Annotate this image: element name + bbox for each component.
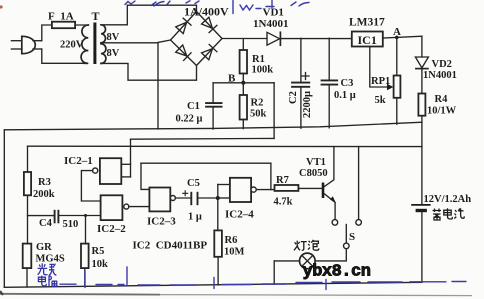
- svg-text:IC1: IC1: [358, 33, 377, 47]
- transformer secondary winding 8V top: [101, 25, 106, 43]
- battery 12V/1.2Ah: [411, 205, 430, 282]
- left edge of oscillator box: [3, 130, 5, 287]
- svg-text:220V: 220V: [60, 40, 84, 51]
- wire bridge left vertex to center tap junction: [158, 40, 171, 42]
- wire IC2-1 output to IC2-2 input: [81, 171, 100, 201]
- svg-text:50k: 50k: [250, 109, 267, 120]
- switch S right contact: [356, 220, 362, 226]
- wire IC2-3 output to C5: [175, 197, 191, 199]
- transformer T primary winding 220V: [81, 25, 88, 63]
- svg-text:VD1: VD1: [263, 7, 284, 19]
- svg-text:R3: R3: [38, 177, 51, 188]
- potentiometer RP1: [370, 37, 401, 124]
- switch S right contact wire: [358, 147, 360, 220]
- svg-text:VT1: VT1: [306, 157, 326, 168]
- svg-text:1A/400V: 1A/400V: [184, 5, 229, 19]
- label dianzu blue chinese: [38, 276, 57, 287]
- svg-text:200k: 200k: [33, 189, 55, 200]
- transformer core: [93, 23, 96, 65]
- svg-text:VD2: VD2: [432, 59, 452, 70]
- blue pen annotation top 2: [151, 1, 170, 6]
- resistor R6: [214, 198, 222, 285]
- resistor R4: [418, 94, 425, 205]
- svg-text:10k: 10k: [92, 259, 109, 270]
- svg-text:0.1 μ: 0.1 μ: [334, 90, 356, 101]
- wire IC1 output to node A and corner: [383, 36, 422, 38]
- blue pen annotation top 1: [125, 1, 135, 5]
- wire feedback to IC2-3 input: [141, 163, 149, 189]
- node B: [213, 81, 274, 85]
- svg-text:F 1A: F 1A: [48, 11, 74, 23]
- bridge rectifier diamond: [171, 12, 223, 66]
- capacitor C2 electrolytic: [291, 38, 310, 128]
- svg-text:12V/1.2Ah: 12V/1.2Ah: [424, 194, 472, 205]
- photoresistor GR MG4S: [23, 244, 32, 287]
- wire plug to fuse: [42, 25, 52, 41]
- blue pen tick x326: [325, 280, 327, 290]
- svg-text:0.22 μ: 0.22 μ: [176, 114, 203, 125]
- blue pen dash bottom middle: [138, 284, 196, 286]
- wire center tap: [101, 42, 158, 44]
- svg-text:4.7k: 4.7k: [274, 197, 293, 208]
- IC2-1 input stubs: [121, 139, 130, 177]
- label battery chinese xu dian chi: [433, 208, 465, 220]
- IC2-4 input stubs: [218, 185, 230, 199]
- svg-text:IC2–1: IC2–1: [64, 155, 93, 167]
- svg-text:R2: R2: [251, 98, 264, 109]
- blue pen vertical stroke x127: [126, 267, 128, 286]
- transformer secondary winding 8V bottom: [101, 44, 106, 64]
- fuse F: [52, 22, 88, 29]
- svg-text:T: T: [92, 9, 100, 23]
- blue pen dashed line bottom right: [296, 282, 466, 283]
- label lamp chinese deng pao: [294, 240, 319, 251]
- svg-text:IC2 CD4011BP: IC2 CD4011BP: [133, 240, 208, 252]
- svg-text:ybx8.cn: ybx8.cn: [303, 263, 371, 282]
- svg-text:C3: C3: [341, 78, 354, 89]
- transistor VT1 C8050: [323, 147, 336, 220]
- wire center tap down to ground rail: [157, 43, 159, 129]
- blue pen dashes bottom right of R6: [222, 283, 286, 286]
- svg-text:1 μ: 1 μ: [188, 212, 202, 223]
- capacitor C1: [205, 83, 222, 129]
- resistor R3: [24, 146, 31, 243]
- svg-text:10/1W: 10/1W: [427, 106, 457, 117]
- switch S blade: [315, 225, 349, 261]
- bridge diode bottom-right: [201, 44, 217, 60]
- diode VD1: [267, 32, 352, 45]
- nand gate IC2-1: [93, 158, 122, 184]
- svg-text:1N4001: 1N4001: [423, 70, 457, 81]
- lamp: [274, 253, 315, 284]
- resistor R2: [240, 83, 247, 129]
- svg-text:C4: C4: [39, 218, 53, 229]
- nand gate IC2-2: [101, 195, 129, 220]
- blue pen annotation top 4: [232, 1, 234, 14]
- node A: [395, 36, 399, 40]
- scan mark bottom left corner: [0, 291, 3, 295]
- wire plug to primary bottom: [42, 49, 84, 63]
- ground rail top of oscillator box: [4, 122, 422, 130]
- svg-text:IC2–4: IC2–4: [225, 209, 254, 221]
- svg-text:C1: C1: [187, 101, 200, 112]
- svg-text:8V: 8V: [107, 32, 120, 43]
- svg-text:10M: 10M: [224, 247, 245, 258]
- bottom rail: [4, 282, 422, 287]
- capacitor C4: [28, 210, 101, 224]
- wire feedback IC2-4 output up and left: [141, 163, 271, 189]
- svg-text:S: S: [349, 231, 355, 243]
- AC plug: [11, 36, 41, 53]
- resistor R5: [81, 216, 89, 287]
- svg-text:GR: GR: [36, 242, 52, 253]
- regulator IC1 LM317: [352, 32, 383, 48]
- blue pen vertical stroke near R5: [84, 271, 86, 288]
- blue pen marks bottom left: [60, 283, 76, 285]
- switch S left contact: [332, 220, 338, 226]
- wire rail node B to IC2-1 inputs: [131, 137, 275, 140]
- scan edge bottom dark line: [0, 293, 160, 296]
- svg-text:5k: 5k: [375, 95, 386, 106]
- resistor R1: [240, 39, 247, 83]
- svg-text:C5: C5: [187, 178, 200, 189]
- wire secondary bottom to bridge bottom: [101, 63, 197, 80]
- svg-text:RP1: RP1: [371, 76, 390, 87]
- nand gate IC2-4: [230, 178, 256, 202]
- wire IC2-4 output: [256, 189, 274, 191]
- wire IC2-2 output to IC2-3: [129, 206, 150, 208]
- blue pen tick x214: [213, 278, 215, 289]
- blue pen dashes bottom: [96, 284, 124, 286]
- blue pen annotation top 3: [186, 1, 199, 4]
- diode VD2: [415, 36, 428, 93]
- scan red dot left edge: [0, 5, 3, 8]
- svg-text:R1: R1: [252, 54, 265, 65]
- scan edge bottom light line: [160, 295, 472, 296]
- wire secondary top to bridge top: [101, 5, 197, 25]
- svg-text:R7: R7: [276, 175, 289, 186]
- svg-text:510: 510: [63, 219, 79, 230]
- capacitor C5: [182, 190, 218, 205]
- label guangmin blue chinese: [38, 263, 57, 275]
- capacitor C3: [321, 38, 339, 128]
- bridge diode top-right: [201, 17, 217, 33]
- svg-text:MG4S: MG4S: [36, 254, 65, 265]
- svg-text:IC2–3: IC2–3: [147, 216, 176, 228]
- svg-text:R4: R4: [435, 94, 449, 105]
- resistor R7: [275, 185, 323, 191]
- junction R5 tap: [84, 214, 87, 217]
- svg-text:R5: R5: [92, 246, 105, 257]
- nand gate IC2-3: [149, 188, 175, 212]
- svg-text:C2: C2: [288, 91, 299, 104]
- svg-text:B: B: [228, 73, 236, 85]
- battery positive rail R3 feed: [28, 145, 422, 147]
- blue pen annotation top 5 W-shape: [240, 5, 261, 10]
- wire node B down to oscillator rail: [273, 83, 275, 139]
- blue pen annotation top 7: [291, 2, 309, 6]
- blue pen annotation top 6: [266, 1, 274, 8]
- svg-text:C8050: C8050: [299, 168, 328, 179]
- svg-text:R6: R6: [225, 235, 238, 246]
- svg-text:100k: 100k: [252, 65, 274, 76]
- node C5 R6 IC2-4 junction: [216, 196, 220, 200]
- svg-text:A: A: [393, 26, 401, 38]
- bridge diode top-left: [176, 18, 191, 34]
- svg-text:LM317: LM317: [349, 17, 385, 29]
- svg-text:1N4001: 1N4001: [253, 18, 288, 30]
- svg-text:IC2–2: IC2–2: [97, 223, 126, 235]
- svg-text:8V: 8V: [107, 48, 120, 59]
- svg-text:2200μ: 2200μ: [302, 91, 313, 118]
- bridge diode bottom-left: [176, 45, 192, 61]
- wire bridge output to VD1: [222, 38, 267, 40]
